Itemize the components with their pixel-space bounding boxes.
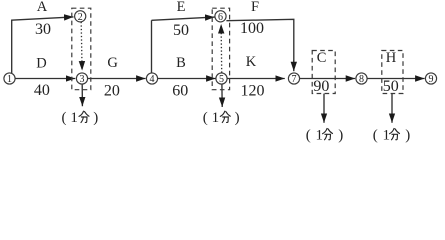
svg-text:50: 50: [383, 78, 399, 95]
svg-text:30: 30: [35, 21, 51, 38]
svg-text:60: 60: [172, 82, 188, 99]
svg-text:7: 7: [292, 74, 297, 85]
svg-text:): ): [338, 127, 343, 143]
svg-text:8: 8: [359, 74, 364, 85]
svg-text:20: 20: [104, 82, 120, 99]
svg-text:H: H: [386, 50, 397, 66]
svg-text:5: 5: [219, 74, 224, 85]
svg-text:K: K: [246, 54, 257, 70]
svg-text:1: 1: [7, 74, 12, 85]
svg-text:A: A: [37, 0, 48, 15]
svg-text:(: (: [62, 110, 67, 126]
svg-text:G: G: [107, 55, 118, 71]
svg-text:3: 3: [80, 74, 85, 85]
svg-text:40: 40: [34, 82, 50, 99]
svg-text:C: C: [317, 50, 327, 66]
svg-text:6: 6: [218, 12, 223, 23]
svg-text:9: 9: [429, 74, 434, 85]
svg-text:): ): [93, 110, 98, 126]
svg-text:D: D: [36, 55, 46, 71]
svg-text:100: 100: [240, 20, 264, 37]
svg-text:50: 50: [173, 22, 189, 39]
svg-text:90: 90: [313, 78, 329, 95]
svg-text:F: F: [251, 0, 259, 15]
svg-text:E: E: [177, 0, 186, 15]
svg-text:1: 1: [70, 110, 78, 126]
svg-text:1: 1: [316, 127, 324, 143]
svg-text:120: 120: [241, 82, 265, 99]
svg-text:4: 4: [150, 74, 155, 85]
svg-text:B: B: [176, 55, 186, 71]
svg-text:(: (: [306, 127, 311, 143]
svg-text:2: 2: [78, 12, 83, 23]
